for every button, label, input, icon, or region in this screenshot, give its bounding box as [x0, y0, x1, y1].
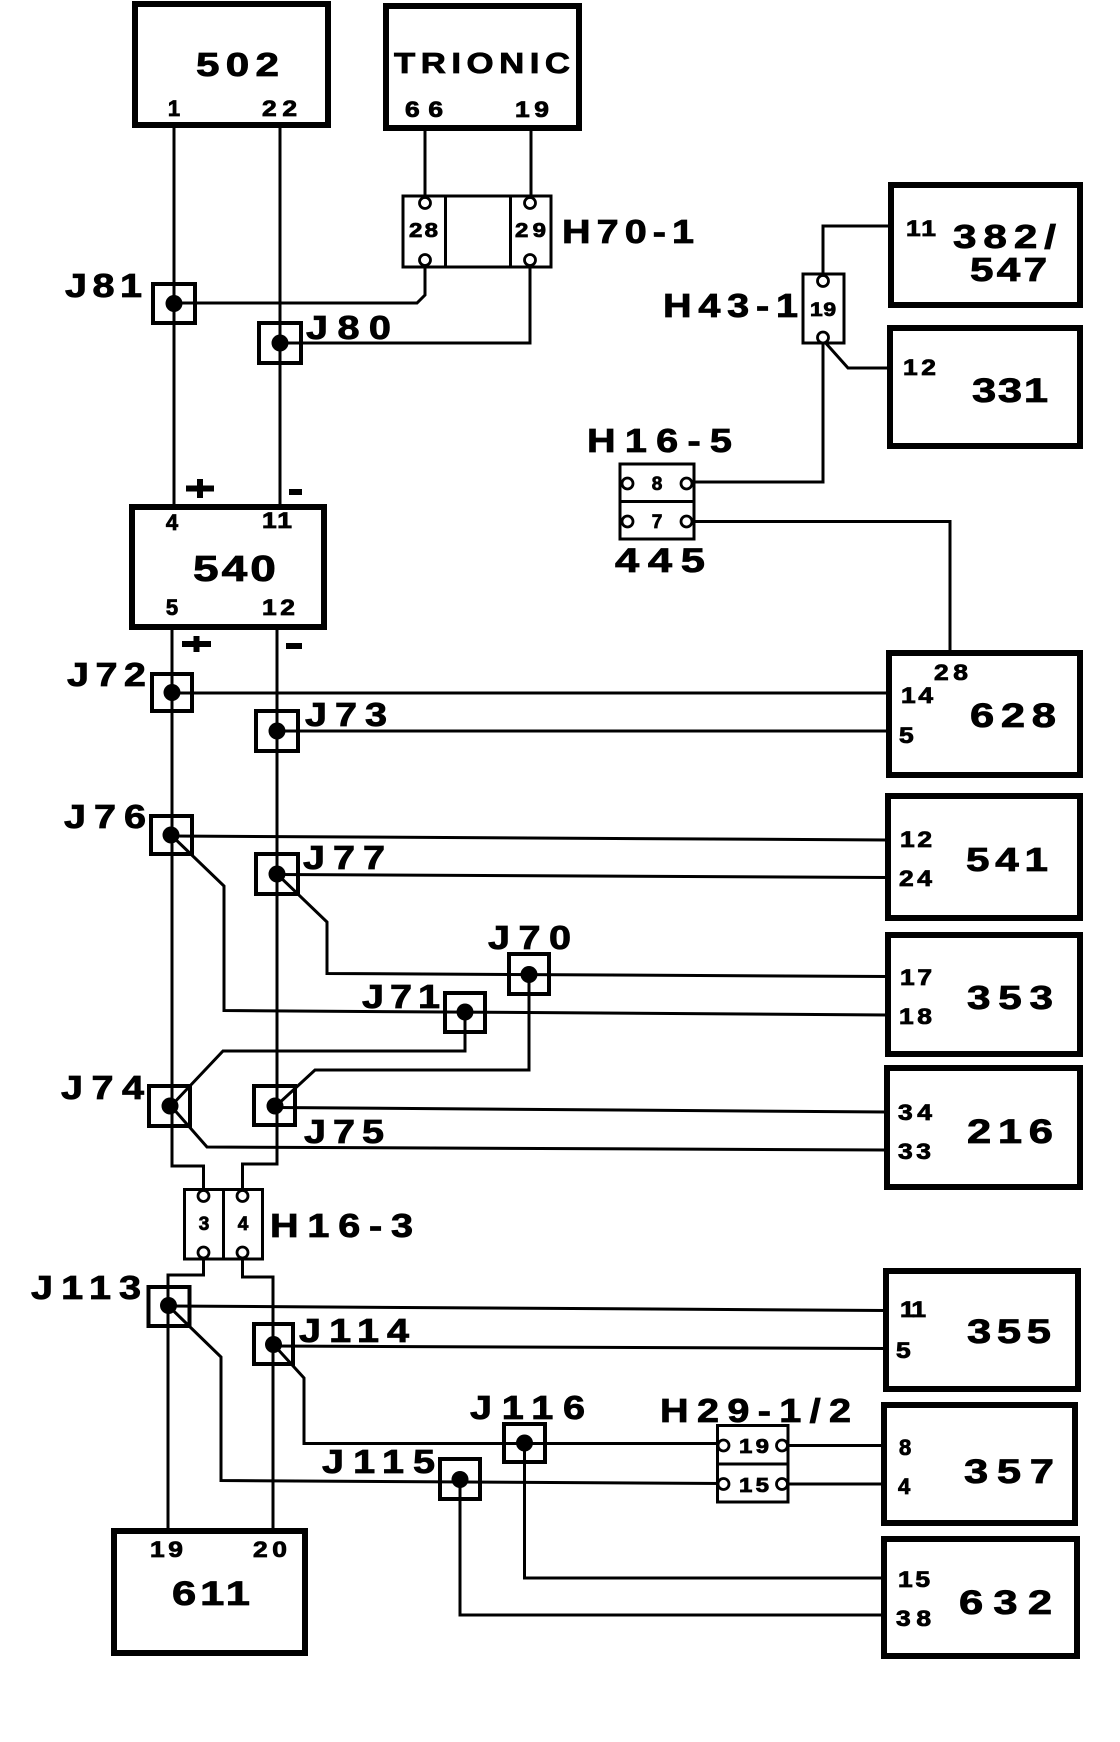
svg-text:541: 541: [966, 842, 1048, 879]
wire H29-1/2 pin19 to 357 pin8: [782, 1444, 884, 1447]
svg-text:H16-3: H16-3: [270, 1207, 413, 1244]
svg-text:H29-1/2: H29-1/2: [660, 1392, 851, 1429]
svg-text:15: 15: [739, 1474, 769, 1497]
svg-text:331: 331: [972, 372, 1048, 409]
svg-text:19: 19: [739, 1435, 769, 1458]
component box 541: [888, 796, 1080, 918]
svg-text:4: 4: [238, 1214, 249, 1235]
value label 382/547: [953, 219, 1057, 289]
svg-text:J81: J81: [65, 267, 142, 304]
svg-text:540: 540: [193, 549, 276, 589]
svg-text:353: 353: [967, 980, 1053, 1017]
wire H70-1 pin28 bottom to junction J81: [174, 266, 425, 303]
wire junction J76 branch through J71 to 353 pin18: [171, 835, 888, 1015]
junction J116: [504, 1424, 545, 1462]
svg-text:J76: J76: [64, 798, 146, 835]
junction J80: [259, 323, 301, 363]
wire junction J113 to 355 pin11: [168, 1306, 886, 1311]
junction J114: [254, 1324, 293, 1364]
junction J74: [149, 1086, 190, 1126]
wire junction J114 to 355 pin5: [274, 1346, 887, 1349]
wire 502 pin1 rail to 540 pin4 through J81: [173, 125, 176, 507]
polarity minus below 540 pin12: [286, 643, 302, 649]
wire junction J75 to 216 pin34: [276, 1108, 887, 1113]
junction J81: [153, 284, 195, 323]
svg-text:8: 8: [899, 1435, 911, 1460]
svg-text:632: 632: [959, 1584, 1052, 1621]
svg-text:502: 502: [196, 47, 279, 84]
svg-text:J70: J70: [488, 919, 571, 956]
wire junction J76 to 541 pin12: [171, 836, 888, 840]
connector H29-1/2: [718, 1426, 789, 1503]
junction J73: [256, 711, 298, 751]
svg-text:5: 5: [896, 1339, 911, 1363]
junction J75: [254, 1086, 295, 1125]
polarity plus above 540 pin4: [186, 479, 214, 498]
wire H70-1 pin29 bottom to junction J80: [280, 266, 530, 343]
junction J71: [445, 993, 485, 1032]
svg-text:1: 1: [168, 96, 180, 121]
svg-text:J77: J77: [303, 839, 385, 876]
svg-text:H16-5: H16-5: [587, 422, 732, 459]
svg-text:8: 8: [652, 474, 663, 495]
component box 632: [884, 1539, 1077, 1656]
wire junction J71 down to junction J74: [171, 1012, 465, 1106]
svg-text:547: 547: [970, 252, 1047, 289]
wire TRIONIC pin66 to H70-1 pin28 top: [424, 128, 427, 197]
junction J77: [256, 854, 298, 894]
component box 353: [888, 935, 1080, 1054]
svg-text:5: 5: [899, 724, 914, 748]
connector H16-5: [620, 464, 694, 539]
component box 357: [884, 1405, 1075, 1523]
wire junction J115 down to 632 pin38: [460, 1481, 884, 1615]
component box 628: [889, 653, 1080, 775]
wire H16-5 pin7 to 628 pin28: [687, 522, 951, 654]
wire H43-1 pin19 bottom to 331 pin12: [823, 340, 890, 368]
svg-text:4: 4: [166, 510, 179, 535]
component box TRIONIC: [386, 6, 579, 128]
svg-text:J72: J72: [67, 656, 146, 693]
connector H70-1: [403, 196, 551, 267]
polarity plus below 540 pin5: [182, 636, 211, 652]
svg-text:28: 28: [409, 219, 438, 242]
component box 611: [114, 1531, 305, 1653]
wire H16-3 pin3 bottom through J113 to 611 pin19: [168, 1253, 204, 1532]
svg-text:J114: J114: [299, 1312, 410, 1349]
svg-text:11: 11: [262, 509, 292, 533]
svg-text:611: 611: [172, 1575, 250, 1612]
svg-text:445: 445: [615, 542, 705, 579]
component box 216: [887, 1068, 1080, 1187]
svg-text:4: 4: [898, 1474, 911, 1499]
svg-text:216: 216: [967, 1113, 1053, 1150]
component box 540: [132, 507, 324, 627]
wire junction J114 branch through J116 to H29-1/2 pin19: [274, 1345, 724, 1444]
svg-text:J115: J115: [322, 1443, 435, 1480]
wire 540 pin12 rail down through J73 J77 J75 to H16-3 pin4: [243, 627, 278, 1196]
wire junction J72 to 628 pin14: [172, 692, 889, 695]
wire junction J73 to 628 pin5: [277, 730, 889, 733]
svg-text:J113: J113: [31, 1269, 141, 1306]
svg-text:J71: J71: [362, 978, 440, 1015]
wire junction J113 branch through J115 to H29-1/2 pin15: [168, 1306, 724, 1484]
junction J113: [149, 1287, 190, 1326]
wire junction J77 to 541 pin24: [277, 875, 888, 878]
svg-text:H43-1: H43-1: [663, 287, 798, 324]
wire 502 pin22 rail to 540 pin11 through J80: [279, 125, 282, 507]
svg-text:J80: J80: [306, 309, 391, 346]
component box 382/547: [891, 185, 1080, 305]
svg-text:J73: J73: [305, 696, 387, 733]
svg-text:11: 11: [906, 217, 936, 241]
svg-text:7: 7: [652, 512, 663, 533]
component box 355: [886, 1271, 1078, 1389]
wire junction J70 down to junction J75: [276, 974, 529, 1106]
junction J76: [151, 816, 192, 854]
wire junction J77 branch through J70 to 353 pin17: [277, 874, 888, 977]
wire H43-1 pin19 bottom to H16-5 pin8: [687, 337, 824, 482]
wire junction J116 down to 632 pin15: [525, 1443, 885, 1578]
junction J70: [509, 954, 549, 994]
svg-text:J74: J74: [61, 1069, 145, 1106]
svg-text:628: 628: [970, 697, 1056, 734]
connector H16-3: [185, 1190, 263, 1260]
wire H29-1/2 pin15 to 357 pin4: [782, 1483, 884, 1486]
svg-text:357: 357: [964, 1453, 1054, 1490]
svg-text:11: 11: [900, 1298, 926, 1322]
junction J72: [152, 674, 192, 711]
svg-text:H70-1: H70-1: [562, 213, 694, 250]
svg-text:3: 3: [199, 1214, 210, 1235]
svg-text:5: 5: [166, 595, 178, 620]
wire H43-1 pin19 top to 382/547 pin11: [823, 226, 891, 281]
svg-text:355: 355: [967, 1313, 1051, 1350]
wire 540 pin5 rail down through J72 J76 J74 to H16-3 pin3: [172, 627, 204, 1196]
svg-text:J116: J116: [470, 1389, 585, 1426]
junction J115: [440, 1459, 480, 1499]
svg-text:29: 29: [515, 219, 546, 242]
svg-text:19: 19: [810, 300, 836, 321]
connector H43-1: [803, 274, 844, 343]
wire TRIONIC pin19 to H70-1 pin29 top: [530, 128, 533, 197]
component box 331: [890, 328, 1080, 446]
wire H16-3 pin4 bottom through J114 to 611 pin20: [243, 1253, 274, 1532]
polarity minus above 540 pin11: [289, 489, 302, 495]
svg-text:J75: J75: [304, 1113, 384, 1150]
wire junction J74 branch to 216 pin33: [171, 1106, 887, 1150]
component box 502: [135, 4, 328, 125]
